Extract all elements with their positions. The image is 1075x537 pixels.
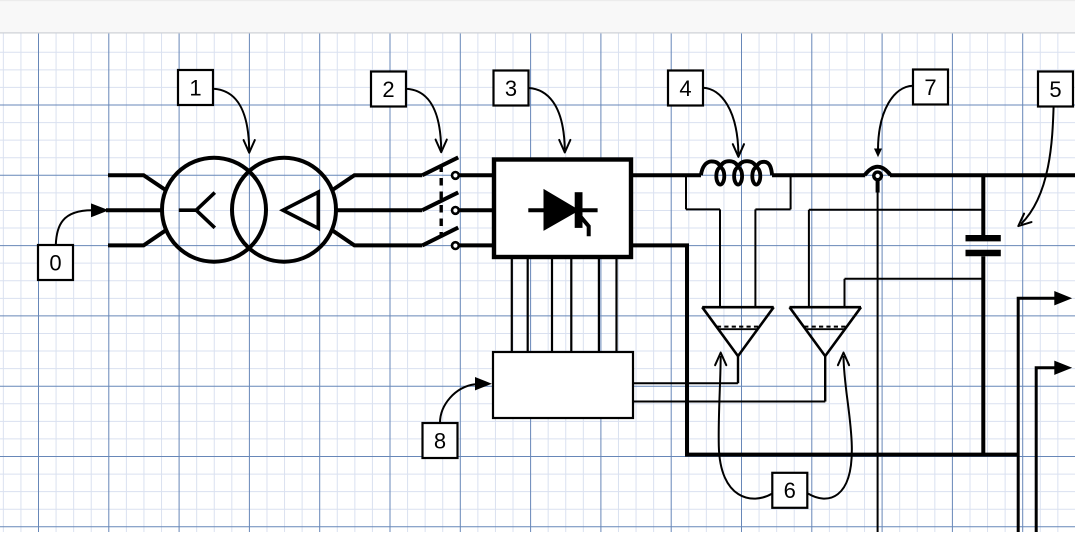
gate unit G1 body [702, 307, 774, 356]
rectifier U1 box [494, 160, 631, 258]
wire phase B input [106, 208, 163, 212]
label 3 arrow [529, 88, 565, 150]
CT outline left horizontal [686, 208, 720, 210]
thyristor triangle [544, 190, 579, 230]
gate unit G1 dashed level line [717, 326, 759, 328]
wire output 1 with arrow [1018, 298, 1055, 532]
gate unit G1 stem [737, 356, 739, 383]
svg-text:1: 1 [189, 75, 201, 100]
label 0 arrow [56, 210, 92, 245]
switch S1 contact circle pole 3 [452, 242, 459, 249]
wire phase C input [108, 230, 167, 246]
svg-text:4: 4 [679, 76, 691, 101]
wire switch pole 2 to rectifier [459, 208, 493, 212]
svg-text:2: 2 [382, 77, 394, 102]
switch S1 contact circle pole 1 [452, 172, 459, 179]
svg-text:6: 6 [784, 478, 796, 503]
inductor L1 coil [701, 161, 772, 175]
svg-text:3: 3 [505, 76, 517, 101]
svg-text:8: 8 [434, 428, 446, 453]
svg-text:0: 0 [49, 250, 61, 275]
thyristor cathode bar [575, 192, 583, 228]
CT outline right horizontal [755, 208, 790, 210]
wire phase A to switch [332, 175, 423, 190]
thyristor lead [528, 208, 597, 212]
label 7 box [913, 70, 948, 105]
svg-text:7: 7 [924, 75, 936, 100]
gate unit G2 dashed level line [804, 326, 846, 328]
wire gate unit G1 to control box [634, 382, 738, 384]
switch S1 linkage dashed line [440, 165, 443, 238]
sensor stem [876, 181, 880, 193]
label 8 box [423, 423, 458, 458]
label 2 arrow [406, 89, 442, 150]
label 0 box [38, 245, 73, 280]
inductor L1 loop [734, 168, 742, 185]
label 6 box [772, 473, 807, 508]
label 1 arrow [213, 89, 249, 150]
wire phase B to switch [335, 208, 422, 212]
svg-text:5: 5 [1049, 77, 1061, 102]
inductor L1 loop [716, 168, 724, 185]
wire gate unit G2 to control box [634, 401, 825, 403]
toolbar strip [0, 0, 1075, 34]
switch S1 contact circle pole 2 [452, 207, 459, 214]
label 4 arrow [703, 88, 738, 154]
wire switch pole 1 to rectifier [459, 173, 493, 177]
capacitor C1 top plate [966, 235, 1001, 241]
label 3 box [494, 71, 529, 106]
CT outline left vertical [685, 177, 687, 209]
switch S1 blade pole 2 [422, 192, 458, 210]
wire sense line lower [845, 278, 984, 280]
transformer T1 secondary winding circle [232, 158, 336, 262]
label 6 arrow to gate unit G2 [808, 356, 852, 499]
sensor hop arc [865, 167, 891, 176]
thyristor gate lead [581, 217, 589, 237]
control box U2 [493, 352, 633, 418]
label 2 box [371, 72, 406, 107]
gate unit G2 body [790, 307, 862, 356]
label 5 arrow [1021, 107, 1054, 225]
wire DC negative rail [631, 245, 1019, 454]
wire CT tap right down to gate unit 1 [754, 209, 756, 307]
capacitor C1 bottom plate [966, 250, 1001, 256]
gate unit G1 level line [719, 328, 757, 330]
transformer T1 primary winding circle [162, 158, 266, 262]
wire sense line upper [809, 209, 983, 211]
wire bus to capacitor [981, 177, 985, 235]
label 7 arrow [878, 86, 913, 149]
delta symbol [283, 192, 318, 228]
CT outline right vertical [790, 177, 792, 209]
gate unit G2 level line [806, 328, 844, 330]
switch S1 blade pole 3 [422, 228, 458, 246]
wire output 2 with arrow [1036, 368, 1055, 532]
wire DC bus positive [631, 173, 1075, 177]
wire sense drop to gate unit 2 left [808, 210, 810, 307]
wye symbol [179, 193, 215, 228]
label 6 arrow to gate unit G1 [719, 356, 773, 499]
label 1 box [178, 70, 213, 105]
wire switch pole 3 to rectifier [459, 243, 493, 247]
switch S1 blade pole 1 [422, 157, 458, 175]
wire capacitor to negative rail [981, 256, 985, 454]
inductor L1 loop [752, 168, 760, 185]
wire phase C to switch [332, 230, 423, 246]
gate unit G2 stem [824, 356, 826, 401]
label 5 box [1038, 72, 1073, 107]
sensor ring [874, 172, 882, 180]
label 8 arrow [440, 384, 475, 423]
wire sense drop to gate unit 2 right [844, 279, 846, 307]
wire CT tap left down to gate unit 1 [719, 209, 721, 307]
label 4 box [668, 71, 703, 106]
wire sensor signal down [877, 193, 879, 533]
wire phase A input [108, 175, 167, 190]
rectifier gate wires [512, 259, 617, 352]
